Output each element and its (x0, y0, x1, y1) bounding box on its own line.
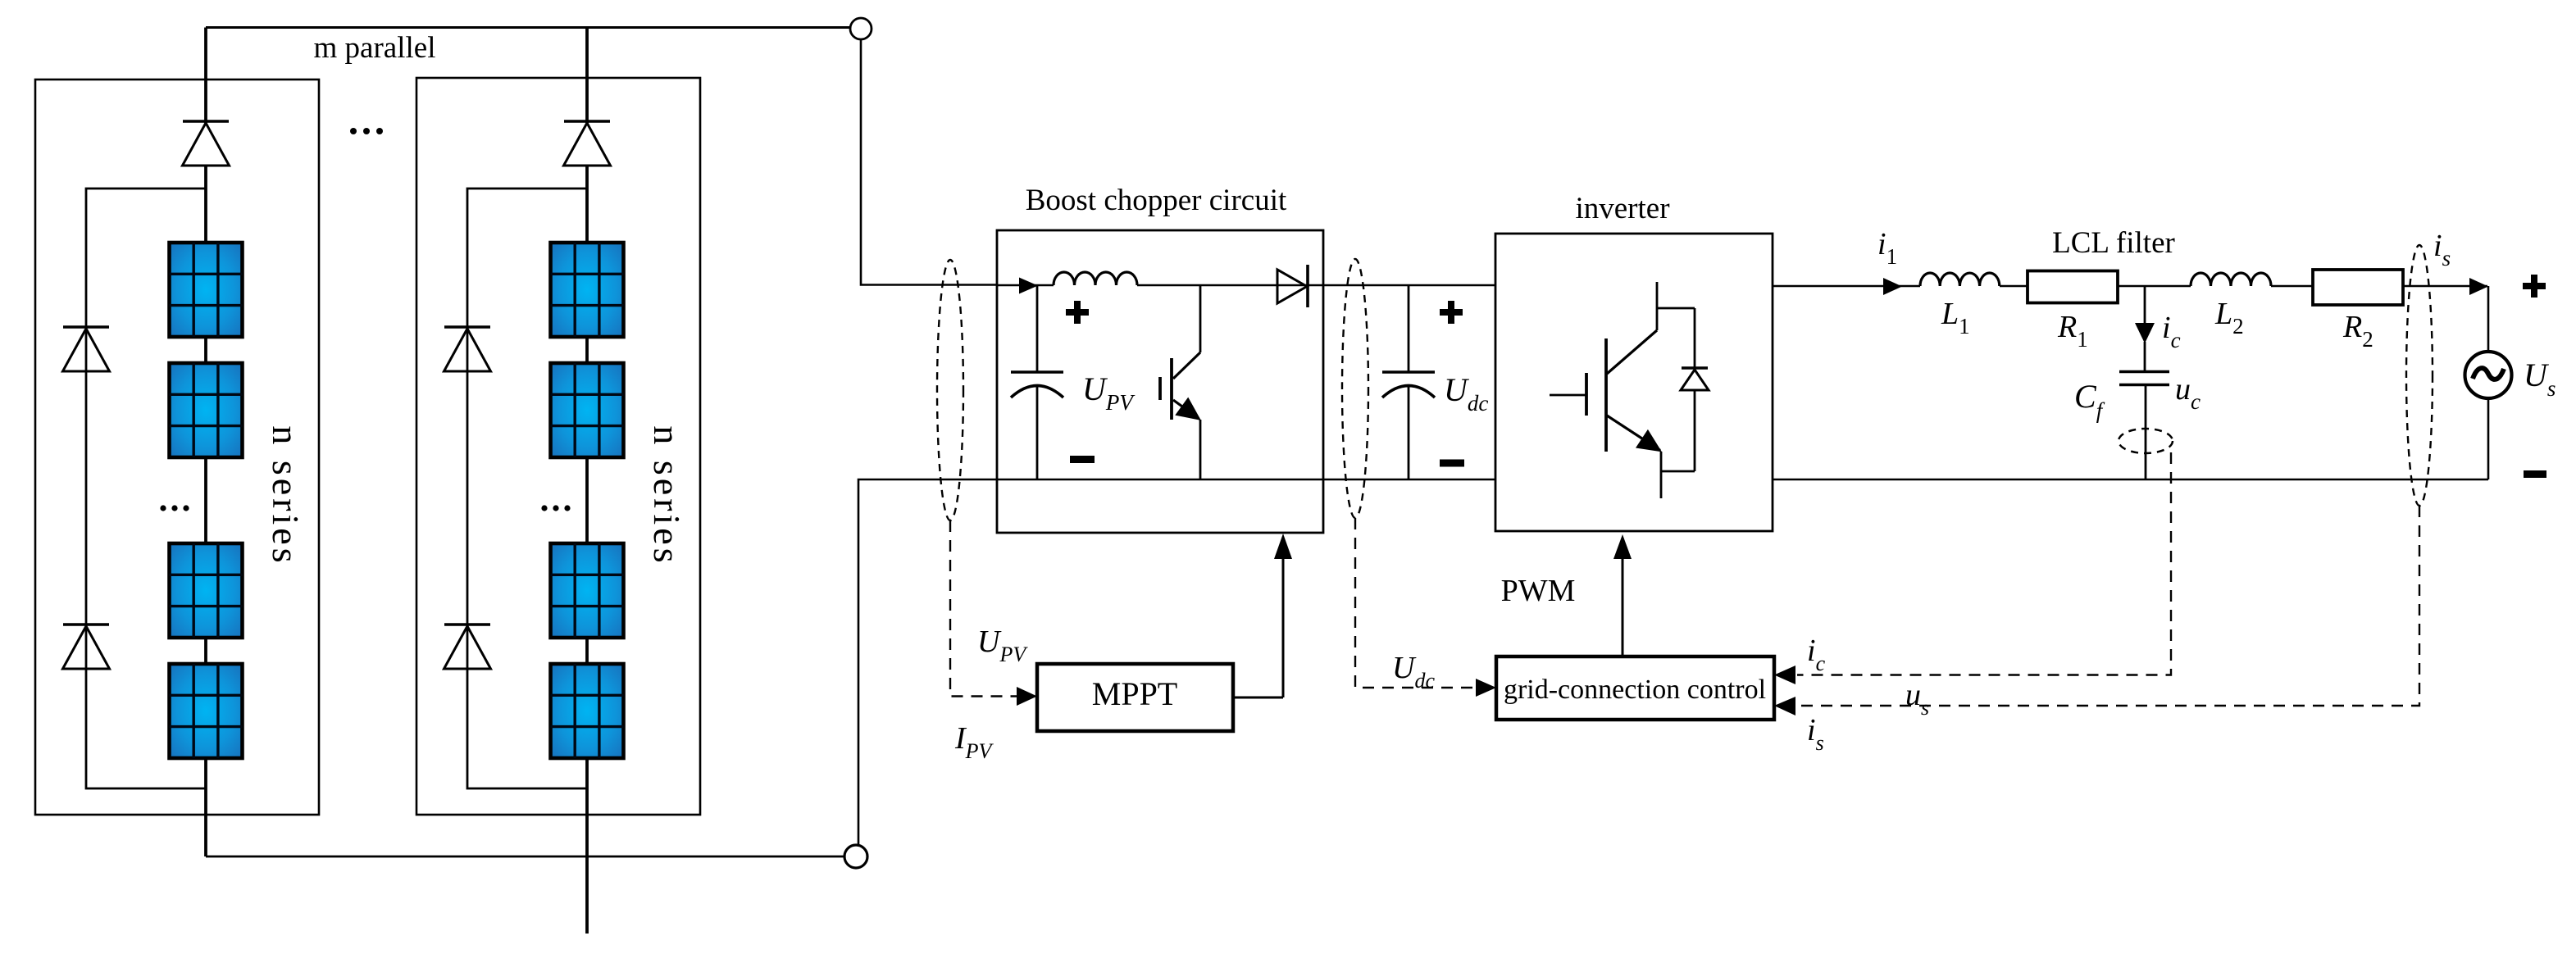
wire: top DC bus from PV strings to positive terminal (206, 26, 850, 29)
wire: positive terminal to boost input (861, 39, 998, 285)
svg-text:PWM: PWM (1501, 574, 1576, 608)
wire: string 1 inner bypass bracket (86, 189, 206, 788)
wire: negative terminal riser to bottom rail (858, 479, 998, 845)
arrow: PWM drive into inverter (1613, 534, 1632, 656)
label: + (U_PV polarity) (1066, 301, 1089, 324)
arrow: i_s input (1774, 697, 1795, 715)
arrow: Q1 emitter (1176, 399, 1199, 420)
capacitor C_dc (1382, 285, 1435, 479)
label: + (grid polarity) (2523, 275, 2546, 298)
wire: string 2 center conductor (585, 28, 589, 934)
bypass diode D6 (444, 625, 491, 669)
probe ellipse: i_c current measurement (2119, 429, 2173, 453)
arrow: Q2 emitter (1637, 431, 1660, 451)
inductor L (boost) (1054, 272, 1137, 285)
wire: dashed U_PV/I_PV sense into MPPT (950, 520, 1017, 697)
wire: bottom rail left of inverter (997, 479, 1495, 481)
capacitor Cf (2119, 372, 2169, 480)
label: - (grid polarity) (2524, 470, 2546, 478)
resistor R2 (2313, 270, 2403, 305)
wire: bottom DC bus (206, 856, 844, 858)
wire: dashed U_dc sense into controller (1355, 518, 1476, 688)
wire: bottom rail inverter to grid (1773, 479, 2488, 481)
svg-text:grid-connection control: grid-connection control (1504, 675, 1766, 705)
arrow: current into boost (1019, 278, 1038, 294)
transistor Q1 (boost IGBT) (1160, 285, 1200, 479)
bypass diode D1 (183, 121, 230, 166)
arrow: i_c direction (2135, 323, 2155, 343)
svg-text:n series: n series (265, 425, 307, 566)
PV module PV4 (170, 664, 243, 758)
PV module PV2 (170, 363, 243, 457)
node: dots between parallel strings (350, 128, 383, 134)
arrow: MPPT drive into boost (1274, 534, 1292, 697)
PV module PV8 (551, 664, 624, 758)
bypass diode D2 (63, 327, 110, 371)
PV string 1 outer frame (35, 79, 319, 815)
grid-connection control box (1496, 656, 1774, 720)
svg-text:MPPT: MPPT (1092, 675, 1178, 712)
PV module PV5 (551, 243, 624, 337)
arrow: sense input into MPPT (1017, 687, 1037, 706)
resistor R1 (2028, 271, 2118, 303)
node: dots between series modules (string 2) (541, 505, 570, 511)
PV module PV3 (170, 543, 243, 638)
wire: string 2 inner bypass bracket (467, 189, 587, 788)
Boost chopper circuit box (997, 230, 1323, 533)
probe ellipse: i_s current measurement (2406, 245, 2433, 506)
probe ellipse: U_dc measurement (1342, 259, 1368, 518)
transistor Q2 (inverter IGBT) (1550, 282, 1695, 498)
PV module PV7 (551, 543, 624, 638)
svg-text:m parallel: m parallel (314, 31, 436, 65)
label: - (U_PV polarity) (1070, 456, 1095, 463)
PV module PV6 (551, 363, 624, 457)
label: - (U_dc polarity) (1440, 460, 1464, 467)
wire: grid connection drops (2487, 286, 2490, 479)
bypass diode D5 (444, 327, 491, 371)
wire: top rail boost section (997, 284, 1495, 287)
terminal: PV negative output (844, 845, 867, 868)
inductor L2 (2191, 273, 2271, 286)
AC source U_s (2465, 352, 2512, 398)
wire: dashed u_s / i_s feedback (1797, 506, 2419, 706)
inverter box (1495, 234, 1773, 531)
svg-text:LCL filter: LCL filter (2052, 226, 2175, 260)
bypass diode D4 (564, 121, 611, 166)
node: dots between series modules (string 1) (160, 505, 189, 511)
svg-text:inverter: inverter (1575, 192, 1669, 225)
probe ellipse: U_PV measurement (937, 260, 963, 520)
terminal: PV positive output (850, 18, 872, 39)
wire: shunt branch from node to Cf (2144, 286, 2146, 371)
wire: dashed i_c feedback (1797, 452, 2171, 675)
capacitor C_PV (1011, 285, 1063, 479)
diode D8 (freewheel diode) (1681, 308, 1709, 471)
svg-text:n series: n series (646, 425, 688, 566)
PV string 2 outer frame (416, 78, 700, 815)
PV module PV1 (170, 243, 243, 337)
arrow: i_s direction (2469, 278, 2488, 295)
arrow: U_dc input (1476, 679, 1496, 697)
wire: top rail inverter to grid (1773, 285, 2487, 288)
diode D7 (boost output diode) (1277, 265, 1308, 307)
inductor L1 (1920, 273, 2000, 286)
MPPT controller box (1037, 664, 1233, 731)
arrow: i_c input (1774, 666, 1795, 684)
bypass diode D3 (63, 625, 110, 669)
arrow: i_1 direction (1883, 278, 1902, 295)
wire: string 1 center conductor (204, 28, 207, 857)
svg-text:Boost chopper circuit: Boost chopper circuit (1026, 184, 1287, 217)
label: + (U_dc polarity) (1440, 301, 1463, 324)
wire: MPPT output to boost (1233, 697, 1283, 699)
